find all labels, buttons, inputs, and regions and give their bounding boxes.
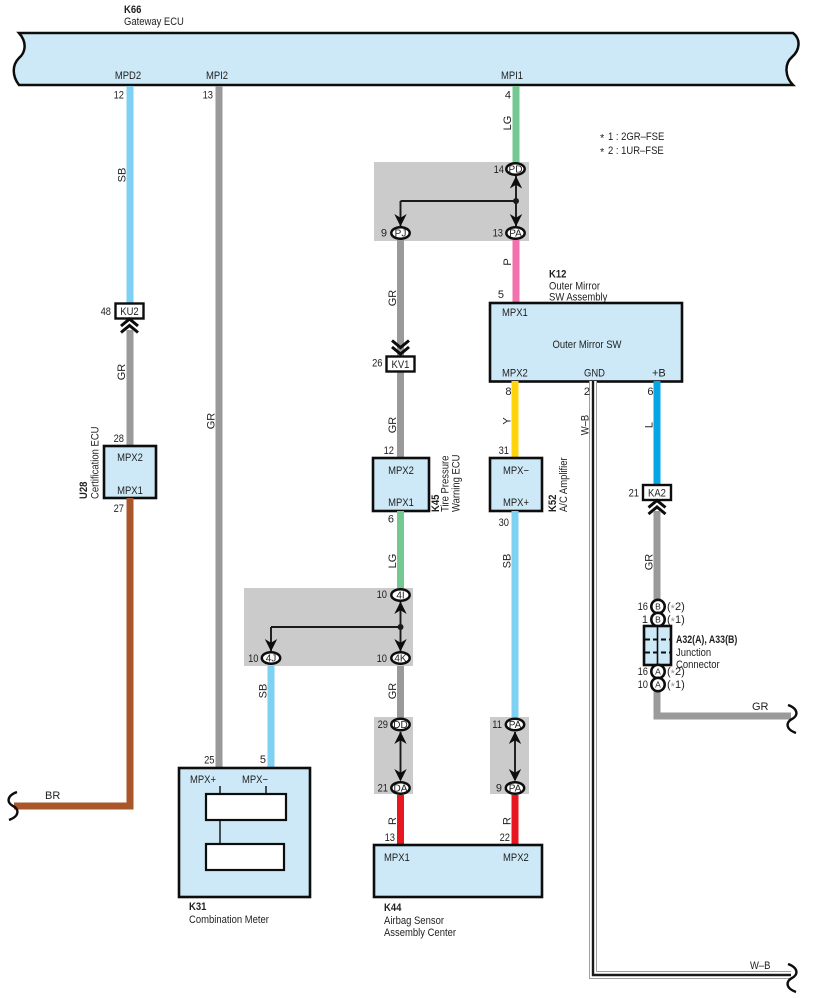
amplifier K52 A/C [490,458,542,511]
svg-text:L: L [644,422,656,428]
svg-text:Gateway ECU: Gateway ECU [124,16,184,28]
K31 internal block 2 [206,844,284,870]
svg-text:MPX−: MPX− [242,774,268,786]
svg-text:GR: GR [387,290,399,307]
svg-text:A32(A), A33(B): A32(A), A33(B) [676,634,738,646]
svg-text:9: 9 [381,228,387,240]
svg-text:Assembly Center: Assembly Center [384,927,456,939]
wire W-B GND to bottom right [593,381,791,975]
svg-text:KV1: KV1 [392,359,410,371]
svg-text:MPI1: MPI1 [501,70,523,82]
svg-text:MPX1: MPX1 [388,497,414,509]
svg-text:B: B [655,615,661,625]
svg-text:10: 10 [377,653,387,665]
wire GR 4K to DD [397,666,404,718]
svg-text:MPX1: MPX1 [384,852,410,864]
svg-text:KU2: KU2 [120,306,138,318]
svg-text:MPX2: MPX2 [117,452,143,464]
svg-text:K12: K12 [549,269,566,281]
connector KA2 pin 21 [643,485,671,500]
wire LG MPI1 to PD [513,86,520,163]
svg-text:(*2): (*2) [667,666,685,680]
wire GR MPI2 to K31 [216,86,223,768]
svg-text:A/C Amplifier: A/C Amplifier [558,457,570,512]
svg-text:10: 10 [377,589,387,601]
svg-text:GR: GR [116,364,128,381]
svg-text:MPX−: MPX− [503,465,529,477]
svg-text:PA: PA [509,784,522,795]
svg-text:Outer Mirror SW: Outer Mirror SW [553,339,622,351]
svg-text:13: 13 [203,90,213,102]
wire LG K45 to 4I [397,511,404,588]
arrow down into PJ [394,214,406,227]
svg-text:GR: GR [752,701,769,713]
junction dot [513,198,519,204]
svg-text:MPX2: MPX2 [502,368,528,380]
connector chevron below KA2 [649,501,666,515]
wire R DA to K44 [397,795,404,845]
svg-text:KA2: KA2 [648,488,666,500]
wire L +B to KA2 [654,381,661,485]
svg-text:13: 13 [493,228,503,240]
connector KU2 pin 48 [116,304,144,319]
svg-text:B: B [655,602,661,612]
svg-text:PJ: PJ [395,229,407,240]
meter K31 Combination Meter [179,768,310,897]
splice arrows PA to PA [514,732,516,780]
connector oval PD pin 14 [506,163,524,175]
svg-text:13: 13 [385,832,395,844]
svg-text:BR: BR [45,790,60,802]
svg-text:12: 12 [114,90,124,102]
svg-text:Y: Y [502,417,514,425]
svg-text:10: 10 [248,653,258,665]
svg-text:6: 6 [647,386,653,398]
svg-text:R: R [387,817,399,825]
svg-text:+B: +B [652,368,666,380]
shaded area PA/PA [490,717,529,794]
svg-text:5: 5 [498,289,504,301]
splice arrows DD to DA [400,732,402,780]
connector KV1 pin 26 [387,357,415,372]
svg-text:GR: GR [387,417,399,434]
svg-text:30: 30 [499,517,509,529]
arrow up into PD [510,176,522,189]
shaded area DD/DA [374,717,413,794]
svg-text:MPD2: MPD2 [115,70,141,82]
wire Y K12 to K52 [512,381,519,458]
svg-text:4I: 4I [396,591,404,602]
sensor K44 Airbag [374,845,542,897]
splice lines inside shaded area [401,176,517,226]
arrow down into 4K [394,639,406,652]
svg-text:8: 8 [505,386,511,398]
K31 internal block 1 [206,794,286,820]
svg-text:12: 12 [384,445,394,457]
wire P PA to K12 [513,240,520,302]
svg-text:GR: GR [206,413,218,430]
svg-text:4K: 4K [394,654,407,665]
junction dot [398,624,404,630]
svg-text:R: R [502,817,514,825]
ECU U28 Certification [104,446,156,498]
svg-text:GND: GND [584,368,605,380]
svg-text:1: 1 [642,614,648,626]
svg-text:4: 4 [505,90,511,102]
svg-text:MPX2: MPX2 [388,465,414,477]
svg-text:25: 25 [204,755,214,767]
svg-text:A: A [655,667,661,677]
junction connector A32(A), A33(B) [644,626,671,665]
svg-text:PA: PA [509,720,522,731]
svg-text:2 : 1UR–FSE: 2 : 1UR–FSE [608,145,664,157]
svg-text:9: 9 [496,783,502,795]
svg-text:16: 16 [638,601,648,613]
svg-text:PD: PD [509,165,523,176]
svg-text:PA: PA [509,229,522,240]
svg-text:U28: U28 [78,482,90,499]
arrow up into 4I [394,602,406,615]
connector chevron below KU2 [121,319,138,333]
wire break squiggle bottom right [788,964,797,992]
svg-text:28: 28 [114,433,124,445]
svg-text:MPX+: MPX+ [190,774,216,786]
svg-text:21: 21 [629,488,639,500]
svg-text:6: 6 [388,514,394,526]
svg-text:LG: LG [387,554,399,569]
svg-text:(*2): (*2) [667,601,685,615]
svg-text:MPX2: MPX2 [503,852,529,864]
wire break squiggle left [9,792,18,820]
svg-text:LG: LG [502,116,514,131]
wire break squiggle right [788,705,797,733]
svg-text:GR: GR [644,554,656,571]
connector chevron above KV1 [392,341,409,355]
svg-text:Warning ECU: Warning ECU [451,454,463,512]
svg-text:*: * [600,133,605,145]
K31 internal lines [220,786,266,844]
svg-text:GR: GR [387,683,399,700]
svg-text:MPX1: MPX1 [502,307,528,319]
arrow down into 4J [265,639,277,652]
svg-text:W–B: W–B [750,960,771,972]
svg-text:SB: SB [117,168,129,183]
svg-text:4J: 4J [266,654,277,665]
svg-text:DD: DD [393,720,407,731]
wire BR U28 to left edge [14,498,130,806]
svg-text:21: 21 [378,783,388,795]
svg-text:SB: SB [502,554,514,569]
svg-text:16: 16 [638,666,648,678]
svg-text:48: 48 [101,306,111,318]
svg-text:A: A [655,680,661,690]
wire GR KU2 to U28 [127,330,134,446]
svg-text:MPX+: MPX+ [503,497,529,509]
svg-text:Airbag Sensor: Airbag Sensor [384,915,444,927]
svg-text:Junction: Junction [676,647,711,659]
svg-text:Combination Meter: Combination Meter [189,914,269,926]
svg-text:22: 22 [500,832,510,844]
svg-text:26: 26 [372,358,382,370]
svg-text:27: 27 [114,503,124,515]
wire GR KA2 to right edge [657,511,791,716]
svg-text:SB: SB [258,684,270,699]
svg-text:*: * [600,147,605,159]
wire SB K52 to PA [512,511,519,718]
svg-text:10: 10 [638,679,648,691]
wire SB MPD2 to KU2 [127,86,134,304]
arrow down into PA [510,214,522,227]
svg-text:P: P [502,258,514,265]
wire SB 4J to K31 [268,666,275,768]
wire GR PJ to K45 [397,240,404,458]
svg-text:(*1): (*1) [667,679,685,693]
svg-text:5: 5 [260,754,266,766]
shaded area PD/PJ/PA [374,162,529,241]
svg-text:K31: K31 [189,901,206,913]
wire R PA to K44 [512,795,519,845]
splice lines 4I/4J/4K [271,602,401,651]
svg-text:2: 2 [584,386,590,398]
svg-text:11: 11 [492,719,502,731]
ECU K66 Gateway band [14,33,799,85]
ECU K45 Tire Pressure Warning [373,458,429,511]
svg-text:Certification ECU: Certification ECU [90,426,102,499]
svg-text:DA: DA [394,784,408,795]
svg-text:W–B: W–B [580,415,592,436]
svg-text:MPX1: MPX1 [117,485,143,497]
svg-text:14: 14 [494,164,504,176]
shaded area 4I/4J/4K [244,588,413,666]
svg-text:MPI2: MPI2 [206,70,228,82]
svg-text:K44: K44 [384,902,402,914]
svg-text:K66: K66 [124,4,141,16]
svg-text:1 : 2GR–FSE: 1 : 2GR–FSE [608,131,664,143]
svg-text:31: 31 [499,445,509,457]
svg-text:29: 29 [378,719,388,731]
